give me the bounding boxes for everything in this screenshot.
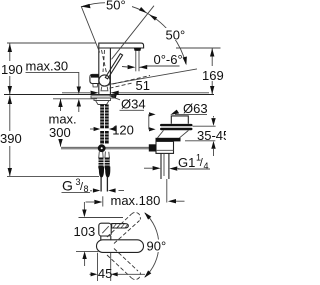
- drain tailpipe: [161, 153, 169, 202]
- hose hatched mid sections: [99, 158, 110, 168]
- mousseur outlet: [134, 48, 141, 51]
- node: label 45: [98, 266, 112, 281]
- wire: 190 top extension line: [7, 42, 96, 44]
- arrowhead bottom end of arc: [183, 57, 187, 66]
- dashed spout up position: [107, 215, 131, 238]
- bottom view: spout stadium: [97, 240, 144, 253]
- joystick rod raised (thick): [105, 54, 122, 79]
- wire: max.30 lower arrow below deck: [78, 106, 80, 112]
- body internal dashed cartridge: [102, 50, 107, 73]
- bottom view: lever bar hatched: [112, 224, 129, 228]
- drain funnel: [158, 130, 189, 137]
- svg-text:90°: 90°: [147, 239, 167, 254]
- svg-text:35-45: 35-45: [197, 128, 226, 143]
- lever extreme line left (L1): [81, 6, 100, 52]
- svg-text:50°: 50°: [166, 28, 186, 43]
- node: label 50deg second: [164, 28, 187, 43]
- cone washer: [96, 101, 110, 105]
- mounting nut: [94, 98, 111, 101]
- hose threaded tips: [100, 177, 102, 192]
- pull rod knob: [98, 144, 106, 152]
- svg-text:max.30: max.30: [26, 59, 69, 74]
- node: shank diameter arrows at 120 label: [90, 128, 94, 130]
- bottom view: body cap: [99, 223, 111, 236]
- svg-text:169: 169: [202, 68, 224, 83]
- node: label 50deg first: [105, 0, 132, 13]
- rod coupling nut at drain: [149, 144, 156, 151]
- svg-text:0°-6°: 0°-6°: [154, 52, 183, 67]
- svg-text:G1: G1: [178, 155, 195, 170]
- node: label O34 with leader: [110, 96, 121, 100]
- node: 103 dimension: [83, 202, 85, 210]
- node: max.300 dimension: [60, 99, 62, 111]
- svg-text:390: 390: [0, 131, 22, 146]
- 50 degree big arc: [81, 3, 186, 64]
- wire: deck top line: [4, 94, 214, 96]
- horizontal pop-up rod: [61, 146, 149, 148]
- svg-text:51: 51: [136, 78, 150, 93]
- mounting washer under deck: [91, 96, 114, 98]
- wire: 390 bottom extension line (hose ends): [7, 175, 99, 177]
- 90 degree arc: [145, 213, 159, 277]
- node: label 90deg: [146, 239, 168, 254]
- node: 51 dimension at base: [62, 92, 90, 94]
- spout plate top: [99, 43, 144, 48]
- svg-text:Ø34: Ø34: [121, 97, 146, 112]
- svg-text:45: 45: [98, 266, 112, 281]
- node: 390 dimension line: [9, 96, 11, 131]
- dashed spout 0-position rays: [107, 76, 151, 86]
- svg-text:120: 120: [112, 123, 134, 138]
- svg-text:Ø63: Ø63: [183, 101, 208, 116]
- arrowheads at lever crossing: [139, 7, 147, 13]
- faucet body: [98, 48, 100, 94]
- 6 degree tilted axis line: [110, 69, 198, 84]
- hose connector cones: [98, 167, 104, 178]
- drain: pop-up plug stub: [171, 116, 188, 124]
- arrowhead left end of arc: [81, 4, 91, 8]
- svg-text:4: 4: [204, 161, 209, 171]
- node: max.180 dimension: [86, 201, 94, 203]
- node: 35-45 dimension: [193, 125, 216, 127]
- node: 120 bracket: [148, 114, 150, 129]
- lever ball joint: [99, 75, 110, 86]
- node: 45 dimension: [97, 253, 99, 281]
- svg-text:190: 190: [1, 62, 23, 77]
- node: 169 dimension: [176, 47, 221, 49]
- bottom view: body lower: [101, 236, 111, 240]
- wire: deck bottom line (max.30 thickness): [53, 98, 97, 100]
- drain side port block: [149, 145, 156, 152]
- lever extreme thin line right: [112, 6, 155, 60]
- hoses below knob: [99, 152, 110, 159]
- drain flange (O63): [160, 124, 193, 130]
- 0-6 leader underline to outlet tube: [140, 66, 180, 67]
- spout stub (left) with aerator: [90, 74, 99, 83]
- svg-text:103: 103: [74, 224, 96, 239]
- drain tee body: [156, 141, 174, 153]
- svg-text:max.180: max.180: [111, 193, 161, 208]
- threaded shank (two dark columns): [100, 105, 109, 129]
- under-ball outlet piece: [101, 87, 108, 91]
- svg-text:G: G: [62, 178, 73, 194]
- node: 190 dimension line: [9, 43, 11, 61]
- dashed spout down position: [107, 255, 131, 278]
- hose upper dark columns: [100, 131, 109, 144]
- svg-text:50°: 50°: [106, 0, 126, 13]
- svg-text:300: 300: [49, 125, 71, 140]
- drain body dark bar: [156, 138, 181, 142]
